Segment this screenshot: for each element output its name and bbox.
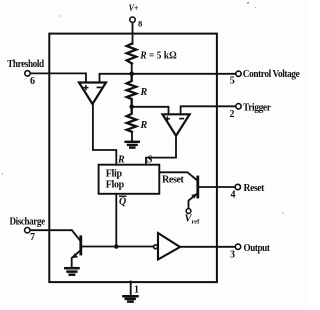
wire R3 to ground: [131, 132, 133, 142]
pin 8 circle: [130, 17, 135, 22]
pin 3 circle: [235, 244, 240, 249]
transistor Q2 emitter to ground: [72, 250, 81, 266]
op-amp comparator 2 (trigger): [163, 114, 190, 136]
svg-text:Reset: Reset: [244, 183, 265, 194]
wire Q2 collector line to inverter input: [82, 246, 154, 248]
ground pin 1 symbol: [123, 296, 137, 301]
scan speckles: [2, 2, 284, 214]
svg-text:4: 4: [231, 190, 236, 201]
node R2-R3 junction: [129, 105, 134, 110]
svg-text:ref: ref: [192, 219, 201, 226]
svg-text:Flip: Flip: [106, 168, 123, 179]
wire reset base to reset pin 4: [199, 186, 235, 188]
resistor R3 zigzag: [127, 107, 137, 132]
svg-text:Reset: Reset: [162, 175, 184, 186]
svg-text:5: 5: [230, 75, 235, 86]
inverter output buffer bubble: [154, 245, 158, 249]
transistor Q2 discharge: base bar: [79, 237, 82, 254]
wire discharge pin to transistor Q2 base: [30, 230, 80, 240]
Vref terminal circle: [186, 209, 191, 214]
ground below R3: [126, 142, 139, 148]
arrowhead Q1 emitter: [191, 194, 196, 199]
ground below Q2: [65, 268, 78, 275]
svg-text:Control Voltage: Control Voltage: [243, 69, 300, 80]
wire comparator 1 output to flip-flop R input: [93, 104, 116, 165]
svg-text:6: 6: [30, 76, 35, 87]
pin 7 circle: [25, 228, 30, 233]
transistor Q1 reset: base bar: [196, 177, 199, 197]
wire flip-flop reset line to transistor collector: [159, 172, 196, 180]
wire ground pin lead: [130, 282, 132, 296]
svg-text:Flop: Flop: [106, 179, 125, 190]
svg-text:V+: V+: [129, 3, 139, 13]
resistor R2 zigzag: [127, 74, 137, 107]
label comparator 2 plus: [165, 116, 170, 121]
svg-text:R: R: [140, 87, 148, 98]
svg-text:3: 3: [230, 250, 235, 261]
wire threshold segment to comparator 1 plus input: [28, 73, 86, 82]
svg-text:Discharge: Discharge: [10, 216, 46, 227]
pin 2 circle: [236, 104, 241, 109]
op-amp inverter output buffer: [158, 233, 180, 260]
wire comparator 1 minus input to control-voltage line: [100, 74, 239, 83]
svg-text:R: R: [140, 120, 148, 131]
transistor Q1 emitter to Vref: [189, 194, 197, 209]
pin 5 circle: [236, 71, 241, 76]
svg-text:Threshold: Threshold: [7, 59, 44, 70]
label comparator 1 minus: [97, 86, 102, 88]
wire inverter output to output pin 3: [180, 246, 235, 248]
IC boundary box: [49, 34, 217, 283]
flip-flop box U1: [99, 165, 160, 194]
svg-text:Output: Output: [244, 243, 271, 254]
wire V+ pin lead: [132, 23, 134, 45]
label comparator 2 minus: [179, 118, 184, 120]
svg-text:2: 2: [230, 109, 235, 120]
resistor R1 = 5k zigzag: [127, 44, 137, 64]
arrowhead Q2 emitter: [72, 253, 78, 258]
wire comparator 2 minus input to trigger pin: [181, 106, 238, 114]
wire node to comparator 2 plus input: [132, 107, 169, 115]
svg-text:7: 7: [30, 232, 35, 243]
svg-text:8: 8: [138, 18, 142, 28]
wire R1 bottom to node: [131, 64, 133, 75]
svg-text:Trigger: Trigger: [243, 103, 271, 114]
pin 6 circle: [25, 71, 30, 76]
svg-text:Q: Q: [119, 197, 126, 208]
wire comparator 2 output to flip-flop S input: [146, 136, 176, 165]
op-amp comparator 1 (threshold): [79, 83, 106, 105]
node Qbar-discharge junction: [114, 244, 119, 249]
svg-text:R = 5 kΩ: R = 5 kΩ: [139, 50, 177, 62]
node R1-R2 junction: [129, 72, 134, 77]
svg-text:S: S: [147, 155, 153, 166]
wire flip-flop Qbar output down: [115, 194, 117, 247]
pin 4 circle: [235, 184, 240, 189]
svg-text:R: R: [117, 155, 125, 166]
label comparator 1 plus: [83, 85, 88, 90]
svg-text:1: 1: [134, 285, 139, 296]
